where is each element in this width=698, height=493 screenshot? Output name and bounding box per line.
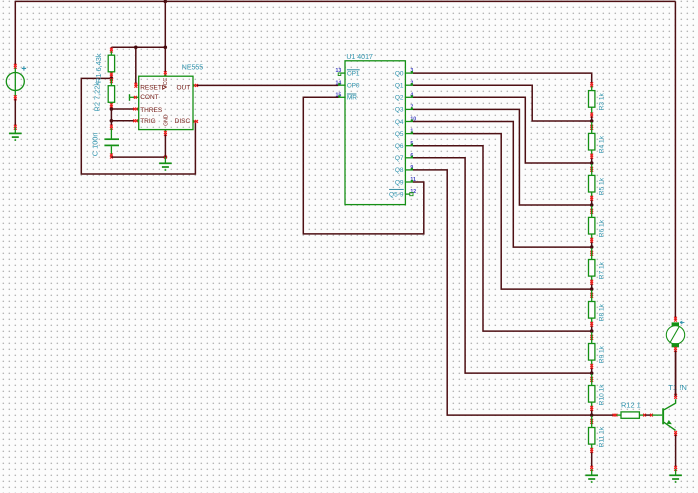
svg-text:R10 1k: R10 1k	[598, 384, 605, 406]
svg-text:Q4: Q4	[395, 119, 404, 126]
svg-text:OUT: OUT	[176, 84, 190, 91]
svg-text:CP1: CP1	[347, 70, 360, 77]
svg-text:DISC: DISC	[175, 118, 191, 125]
svg-text:GND: GND	[164, 114, 170, 126]
svg-text:R9 1k: R9 1k	[598, 345, 605, 363]
svg-text:CONT: CONT	[140, 94, 158, 101]
svg-text:VCC: VCC	[163, 78, 169, 89]
svg-text:Q5-9: Q5-9	[389, 191, 404, 198]
svg-text:R3 1k: R3 1k	[598, 92, 605, 110]
svg-text:NE555: NE555	[182, 65, 204, 72]
svg-text:Q0: Q0	[395, 70, 404, 77]
svg-text:Q2: Q2	[395, 95, 404, 102]
svg-text:THRES: THRES	[140, 107, 163, 114]
svg-text:MR: MR	[347, 95, 357, 102]
svg-text:Q1: Q1	[395, 83, 404, 90]
svg-text:R6 1k: R6 1k	[598, 219, 605, 237]
svg-text:R8 1k: R8 1k	[598, 303, 605, 321]
svg-text:R1 6,43k: R1 6,43k	[94, 53, 103, 83]
svg-text:C 100n: C 100n	[91, 132, 100, 156]
svg-text:Q6: Q6	[395, 143, 404, 150]
svg-text:R12 1: R12 1	[621, 401, 641, 410]
svg-text:Q9: Q9	[395, 179, 404, 186]
svg-text:U1 4017: U1 4017	[346, 54, 373, 61]
svg-text:T1 !N: T1 !N	[668, 383, 687, 392]
svg-text:R11 1k: R11 1k	[598, 426, 605, 447]
svg-text:Q7: Q7	[395, 155, 404, 162]
svg-text:Q5: Q5	[395, 131, 404, 138]
svg-text:CP0: CP0	[347, 83, 360, 90]
svg-text:RESET: RESET	[140, 84, 162, 91]
svg-text:R2 7,22k: R2 7,22k	[92, 82, 101, 112]
svg-text:R5 1k: R5 1k	[598, 177, 605, 195]
svg-text:Q8: Q8	[395, 167, 404, 174]
svg-text:Q3: Q3	[395, 107, 404, 114]
svg-text:R4 1k: R4 1k	[598, 135, 605, 153]
svg-text:R7 1k: R7 1k	[598, 261, 605, 279]
svg-text:TRIG: TRIG	[140, 118, 156, 125]
